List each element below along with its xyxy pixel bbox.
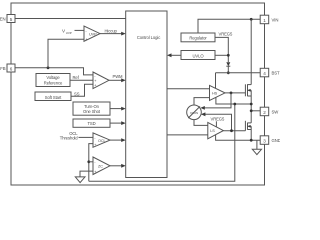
wire one-shot output bbox=[110, 108, 122, 110]
svg-text:EN: EN bbox=[0, 17, 6, 22]
wire GND line from LS driver bottom bbox=[216, 135, 260, 140]
node SW pin branch bbox=[250, 109, 253, 112]
wire ZC sense input bbox=[89, 161, 93, 163]
svg-text:PWM: PWM bbox=[113, 74, 124, 79]
op-amp HS driver bbox=[210, 85, 226, 100]
pin SW (2) bbox=[260, 107, 279, 116]
node LS gate branch bbox=[230, 129, 233, 132]
wire Control Logic to HS driver bbox=[167, 88, 210, 90]
svg-text:UVP: UVP bbox=[89, 33, 97, 37]
svg-text:Control Logic: Control Logic bbox=[137, 35, 160, 40]
wire SW pin bbox=[251, 110, 260, 112]
wire ZC ground input bbox=[80, 171, 93, 177]
wire ground stub bbox=[256, 140, 258, 149]
op-amp OCL comparator bbox=[93, 133, 110, 147]
svg-text:LS: LS bbox=[210, 129, 215, 133]
wire Ref to PWM comparator bbox=[70, 79, 93, 81]
wire PWM output bbox=[109, 79, 122, 81]
wire UVLO to Control Logic bbox=[171, 54, 181, 56]
wire FB net to PWM comparator bbox=[16, 68, 94, 75]
ground left bbox=[75, 177, 85, 183]
block TSD bbox=[73, 119, 110, 127]
node HS gate branch bbox=[230, 92, 233, 95]
svg-text:GND: GND bbox=[272, 138, 281, 143]
node SW sense branch bbox=[233, 103, 236, 106]
svg-text:Hiccup: Hiccup bbox=[105, 28, 118, 33]
wire VIN to HS FET drain bbox=[250, 19, 252, 84]
svg-text:UVP: UVP bbox=[66, 31, 72, 35]
svg-text:FB: FB bbox=[0, 66, 6, 71]
pin BST (4) bbox=[260, 68, 280, 77]
wire current sense return bbox=[89, 104, 235, 181]
wire BST line bbox=[216, 72, 261, 74]
node VREG5/UVLO bbox=[227, 54, 230, 57]
wire VREG5 from Regulator bbox=[215, 37, 228, 62]
wire HS gate bbox=[225, 92, 245, 94]
svg-text:BST: BST bbox=[272, 71, 281, 76]
node SW/HS source bbox=[250, 103, 253, 106]
wire Hiccup output bbox=[100, 33, 122, 35]
block Control Logic bbox=[126, 11, 167, 178]
node VIN branch bbox=[250, 18, 253, 21]
pin VIN (1) bbox=[260, 15, 278, 24]
svg-text:VREG5: VREG5 bbox=[219, 32, 233, 37]
node BST/diode bbox=[227, 71, 230, 74]
pin GND (3) bbox=[260, 136, 281, 145]
svg-text:TSD: TSD bbox=[87, 121, 95, 126]
wire TSD output bbox=[110, 122, 122, 124]
pin FB (6) bbox=[0, 64, 15, 72]
wire OCL threshold to OCL comparator bbox=[79, 136, 94, 138]
svg-text:VIN: VIN bbox=[272, 18, 279, 23]
IC boundary bbox=[11, 3, 265, 185]
svg-text:Regulator: Regulator bbox=[189, 36, 207, 41]
op-amp ZC comparator bbox=[93, 157, 110, 175]
block Turn-On One Shot bbox=[73, 102, 110, 115]
op-amp LS driver bbox=[208, 122, 224, 138]
wire XCON to LS driver bbox=[194, 120, 208, 126]
wire HS gate to XCON bbox=[204, 93, 231, 108]
label V_UVP bbox=[62, 29, 72, 35]
wire LS gate to XCON bbox=[205, 114, 232, 130]
block Regulator bbox=[181, 33, 215, 42]
svg-text:SS: SS bbox=[74, 91, 80, 96]
wire SW node from HS driver bottom bbox=[216, 97, 251, 104]
XCON circle bbox=[187, 105, 202, 120]
node GND/LS source bbox=[250, 139, 253, 142]
svg-text:Ref: Ref bbox=[73, 75, 80, 80]
wire LS gate bbox=[223, 130, 245, 132]
svg-text:One Shot: One Shot bbox=[83, 109, 101, 114]
transistor HS FET bbox=[245, 84, 251, 123]
svg-text:HS: HS bbox=[212, 92, 218, 96]
wire VIN to Regulator bbox=[198, 19, 260, 33]
wire SS to PWM comparator bbox=[71, 84, 93, 96]
wire OCL sense input from sense line bbox=[89, 144, 93, 182]
svg-text:ZC: ZC bbox=[98, 165, 103, 169]
wire FB branch to UVP + input bbox=[48, 39, 84, 68]
label OCL Threshold bbox=[60, 131, 79, 140]
wire OCL output bbox=[110, 139, 122, 141]
block Voltage Reference bbox=[36, 74, 70, 87]
op-amp PWM comparator bbox=[93, 72, 109, 89]
svg-text:Soft Start: Soft Start bbox=[45, 95, 62, 100]
pin EN (5) bbox=[0, 15, 15, 23]
wire VREG5 to LS driver top bbox=[215, 121, 217, 127]
wire Control Logic to LS driver bbox=[167, 134, 208, 136]
svg-text:Threshold: Threshold bbox=[60, 135, 78, 140]
ground right bbox=[252, 149, 261, 154]
svg-text:Reference: Reference bbox=[44, 80, 63, 85]
node ZC sense tap bbox=[87, 160, 90, 163]
wire EN to Control Logic bbox=[16, 18, 126, 20]
diode VREG5 to BST bbox=[226, 62, 230, 73]
transistor LS FET bbox=[245, 121, 251, 140]
op-amp UVP comparator bbox=[84, 26, 100, 42]
svg-text:XCON: XCON bbox=[190, 111, 198, 115]
svg-text:SW: SW bbox=[272, 110, 280, 115]
svg-text:UVLO: UVLO bbox=[192, 53, 204, 58]
wire BST to HS driver top bbox=[215, 73, 217, 89]
node FB/UVP branch bbox=[47, 66, 50, 69]
wire V_UVP to UVP - input bbox=[75, 29, 85, 31]
block Soft Start bbox=[35, 92, 71, 101]
wire XCON to HS driver bbox=[194, 98, 210, 105]
block UVLO bbox=[181, 51, 215, 60]
svg-text:VREG5: VREG5 bbox=[211, 117, 225, 122]
wire ZC output bbox=[110, 165, 122, 167]
wire VREG5 to UVLO bbox=[215, 54, 228, 56]
svg-text:OCL: OCL bbox=[98, 139, 106, 143]
